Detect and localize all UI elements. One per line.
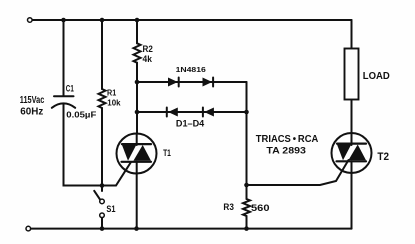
- triac T2: [332, 100, 372, 229]
- diode D2: [203, 78, 214, 87]
- node R3 bottom junction: [244, 226, 249, 231]
- resistor R2: [134, 43, 141, 62]
- terminal bottom-left: [26, 226, 31, 231]
- wire C1 lower lead to gate wire: [64, 104, 132, 186]
- wire diode row 2: [137, 111, 247, 113]
- wire bottom horizontal: [31, 228, 352, 230]
- node diode row 2 right junction: [244, 110, 249, 115]
- svg-text:C1: C1: [66, 84, 74, 94]
- wire R1 lower lead: [101, 108, 103, 186]
- diode D1: [168, 78, 179, 87]
- wire diode row 1: [137, 81, 247, 83]
- resistor R3: [243, 199, 250, 216]
- svg-text:115Vac: 115Vac: [20, 95, 45, 106]
- svg-text:LOAD: LOAD: [363, 70, 390, 82]
- svg-text:T1: T1: [163, 148, 171, 158]
- wire R3 lower lead: [246, 216, 248, 229]
- capacitor C1: [52, 96, 75, 108]
- node R1 top junction: [100, 18, 105, 23]
- wire R2 upper lead: [136, 20, 138, 43]
- node T1 bottom junction: [134, 226, 139, 231]
- terminal top-left: [28, 18, 33, 23]
- node diode row 1 left junction: [135, 80, 140, 85]
- svg-text:R2: R2: [143, 44, 153, 54]
- svg-text:TA 2893: TA 2893: [266, 145, 306, 156]
- svg-text:1N4816: 1N4816: [176, 65, 206, 74]
- node gate junction at R1/S1: [100, 183, 105, 188]
- wire R2 lower lead to T1: [136, 63, 138, 134]
- svg-text:560: 560: [251, 203, 270, 213]
- wire C1 upper lead: [63, 20, 65, 96]
- wire top horizontal: [32, 19, 352, 21]
- svg-text:60Hz: 60Hz: [20, 107, 43, 118]
- svg-text:10k: 10k: [107, 98, 120, 108]
- wire T2 gate: [247, 160, 349, 185]
- svg-text:TRIACS • RCA: TRIACS • RCA: [256, 134, 318, 145]
- wire R1 upper lead: [101, 20, 103, 89]
- svg-text:0.05µF: 0.05µF: [66, 110, 96, 120]
- node R2 top junction: [135, 18, 140, 23]
- node C1 top junction: [61, 18, 66, 23]
- svg-text:4k: 4k: [143, 54, 153, 65]
- resistor LOAD box: [345, 49, 359, 100]
- node T2 gate junction: [244, 183, 249, 188]
- triac T1: [117, 134, 157, 229]
- wire bridge right vertical: [246, 82, 248, 199]
- diode D3: [167, 108, 178, 117]
- node S1 bottom junction: [100, 226, 105, 231]
- switch S1: [101, 186, 103, 192]
- node diode row 2 left junction: [135, 110, 140, 115]
- svg-text:T2: T2: [377, 151, 389, 163]
- svg-text:D1–D4: D1–D4: [176, 118, 204, 128]
- svg-text:S1: S1: [106, 203, 115, 214]
- resistor R1: [99, 89, 106, 108]
- wire top-right drop to LOAD: [351, 20, 353, 49]
- svg-text:R3: R3: [223, 202, 234, 212]
- svg-text:R1: R1: [107, 89, 117, 98]
- diode D4: [203, 108, 214, 117]
